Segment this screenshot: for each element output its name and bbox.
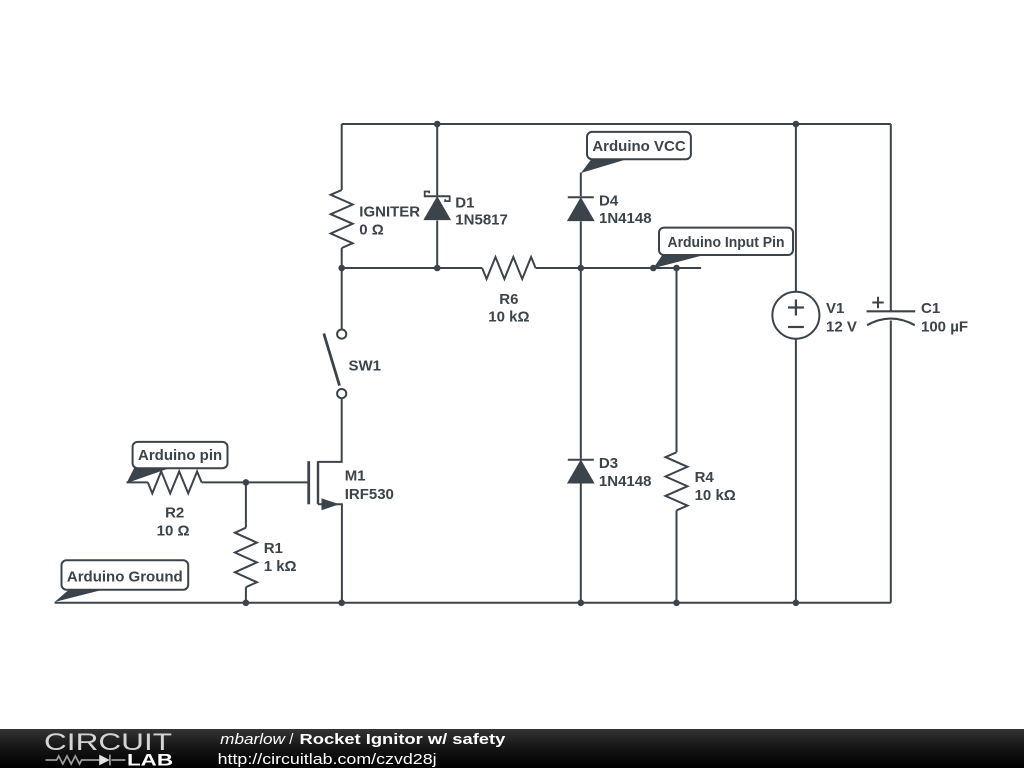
resistor R4 (vertical) (666, 452, 688, 510)
source V1 plus (788, 300, 804, 316)
wire R4 branch top (676, 268, 678, 452)
wire R1 bottom (245, 587, 247, 603)
svg-text:10 kΩ: 10 kΩ (488, 309, 529, 326)
wire switch to mosfet drain (318, 398, 342, 462)
wire R1 top (245, 482, 247, 527)
wire D1 branch bottom (436, 221, 438, 269)
svg-text:R2: R2 (165, 505, 184, 522)
svg-text:1 kΩ: 1 kΩ (264, 558, 297, 575)
svg-text:D4: D4 (599, 193, 619, 210)
diode D3 1N4148 (568, 459, 594, 461)
wire D3 branch top (580, 268, 582, 459)
wire V1 branch top (795, 124, 797, 292)
svg-text:Arduino Ground: Arduino Ground (67, 569, 183, 586)
transistor M1 gate bar (307, 461, 310, 504)
wire V1 branch bottom (795, 339, 797, 603)
wire mid rail R6 left (342, 267, 482, 269)
svg-text:R4: R4 (695, 469, 715, 486)
wire D1 branch top (436, 124, 438, 195)
svg-text:Arduino pin: Arduino pin (138, 447, 222, 464)
switch SW1 top contact (337, 330, 346, 339)
svg-text:10 kΩ: 10 kΩ (695, 487, 736, 504)
flag Arduino Input Pin (653, 254, 708, 268)
diode D1 1N5817 (schottky) (425, 192, 430, 198)
wire D4 branch bottom (580, 221, 582, 268)
wire bottom rail (ground net) (55, 602, 891, 604)
capacitor C1 top plate (867, 310, 916, 312)
wire gate (246, 481, 308, 483)
svg-text:http://circuitlab.com/czvd28j: http://circuitlab.com/czvd28j (218, 751, 437, 768)
wire R2 terminal stub (127, 481, 148, 483)
flag Arduino VCC (581, 158, 630, 173)
resistor R1 (vertical) (235, 528, 257, 588)
svg-text:V1: V1 (826, 300, 844, 317)
resistor R2 (horizontal) (148, 471, 202, 493)
svg-text:D3: D3 (599, 455, 618, 472)
resistor R6 (horizontal) (482, 257, 535, 279)
source V1 minus (788, 326, 804, 328)
svg-text:100 µF: 100 µF (921, 319, 968, 336)
wire D4 flag stub (580, 173, 582, 197)
svg-text:Arduino Input Pin: Arduino Input Pin (668, 234, 785, 251)
wire igniter branch top (341, 124, 343, 190)
svg-text:IGNITER: IGNITER (359, 204, 420, 221)
wire R4 branch bottom (676, 510, 678, 602)
switch SW1 bottom contact (337, 389, 346, 398)
junction dots (434, 121, 441, 128)
wire D3 branch bottom (580, 483, 582, 603)
capacitor C1 curved plate (867, 319, 915, 326)
svg-text:12 V: 12 V (826, 319, 857, 336)
svg-text:mbarlow: mbarlow (220, 731, 286, 748)
svg-text:0 Ω: 0 Ω (359, 222, 384, 239)
flag Arduino Ground (55, 589, 107, 602)
svg-text:D1: D1 (455, 194, 474, 211)
wire C1 branch top (890, 124, 892, 311)
svg-text:Rocket Ignitor w/ safety: Rocket Ignitor w/ safety (300, 731, 507, 748)
svg-text:Arduino VCC: Arduino VCC (592, 138, 685, 155)
svg-text:IRF530: IRF530 (345, 486, 394, 503)
svg-text:SW1: SW1 (349, 358, 382, 375)
svg-text:M1: M1 (345, 468, 366, 485)
svg-text:1N4148: 1N4148 (599, 210, 652, 227)
resistor IGNITER 0 Ohm (vertical) (331, 190, 353, 248)
wire top rail (342, 123, 891, 125)
svg-text:C1: C1 (921, 300, 940, 317)
transistor M1 source arrow (322, 498, 340, 510)
svg-text:R6: R6 (499, 291, 518, 308)
svg-text:LAB: LAB (127, 750, 173, 768)
wire C1 branch bottom (890, 321, 892, 603)
svg-text:R1: R1 (264, 540, 283, 557)
transistor M1 source path (318, 504, 342, 603)
footer bar with CircuitLab logo and title (0, 729, 1024, 768)
wire mid rail R6 right (536, 267, 702, 269)
switch SW1 blade (324, 334, 340, 386)
capacitor C1 plus (872, 297, 883, 308)
wire switch top (341, 268, 343, 330)
wire igniter branch bottom (341, 248, 343, 268)
svg-text:1N5817: 1N5817 (455, 212, 508, 229)
wire R2 to gate (202, 481, 246, 483)
diode D4 1N4148 (568, 196, 594, 198)
transistor M1 channel bar (317, 461, 319, 504)
svg-text:1N4148: 1N4148 (599, 473, 652, 490)
source V1 circle (772, 292, 819, 339)
flag Arduino pin (127, 467, 173, 483)
svg-text:10 Ω: 10 Ω (157, 523, 190, 540)
